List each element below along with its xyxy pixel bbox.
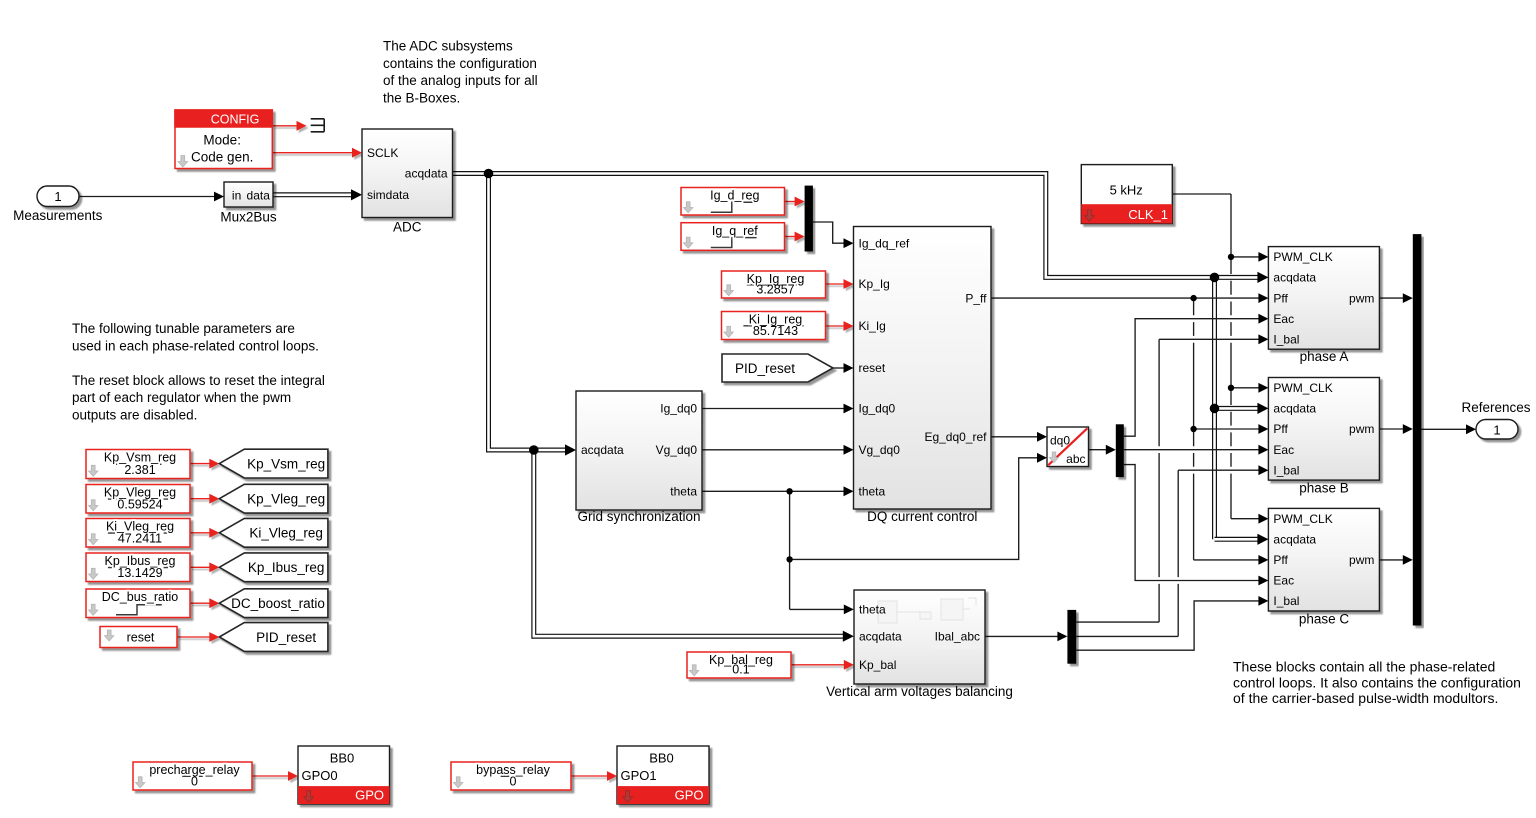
svg-text:1: 1 <box>1493 422 1500 437</box>
svg-text:Pff: Pff <box>1273 291 1288 305</box>
svg-text:pwm: pwm <box>1349 422 1374 436</box>
goto tag Kp_Vleg_reg <box>219 484 328 513</box>
node Pff junction B <box>1190 426 1196 432</box>
wire Ig_d_reg to mux <box>785 201 797 203</box>
svg-text:the B-Boxes.: the B-Boxes. <box>383 90 460 105</box>
svg-text:2.381: 2.381 <box>124 463 155 477</box>
wire Ki_Ig_reg to Ki_Ig <box>826 325 846 327</box>
svg-text:reset: reset <box>859 361 886 375</box>
wire simdata bus: Mux2Bus to ADC <box>273 192 354 197</box>
svg-text:outputs are disabled.: outputs are disabled. <box>72 408 197 423</box>
node acqdata junction phase A <box>1210 273 1220 283</box>
wire I_bal C <box>1076 601 1260 650</box>
block GPO1 <box>617 746 709 804</box>
wire to goto tag Ki_Vleg_reg <box>190 532 211 534</box>
svg-text:Ig_dq_ref: Ig_dq_ref <box>859 236 910 250</box>
wire Vg_dq0 <box>702 449 846 451</box>
svg-text:Kp_bal: Kp_bal <box>859 658 896 672</box>
svg-text:of the analog inputs for all: of the analog inputs for all <box>383 73 538 88</box>
wire Eac C <box>1124 465 1260 581</box>
svg-text:The following tunable paramete: The following tunable parameters are <box>72 321 295 336</box>
parameter block Ki_Ig_reg <box>722 312 826 340</box>
wire pwm A to mux <box>1379 297 1404 299</box>
node PWM_CLK junction B <box>1228 385 1234 391</box>
node acqdata junction phase B <box>1210 404 1220 414</box>
annotation: phase blocks note <box>1233 659 1521 707</box>
block Grid synchronization <box>576 391 702 510</box>
svg-text:Eac: Eac <box>1273 443 1294 457</box>
wire to goto tag PID_reset <box>177 636 211 638</box>
svg-text:Vg_dq0: Vg_dq0 <box>656 443 698 457</box>
node theta junction 1 <box>786 488 792 494</box>
demux abc bar <box>1116 424 1124 477</box>
node acqdata junction 1 <box>484 169 494 179</box>
svg-text:theta: theta <box>859 485 886 499</box>
svg-text:BB0: BB0 <box>649 751 674 766</box>
annotation: ADC subsystems note <box>383 39 538 106</box>
parameter block Kp_bal_reg <box>687 652 791 678</box>
parameter block Ki_Vleg_reg <box>86 519 190 548</box>
svg-text:pwm: pwm <box>1349 291 1374 305</box>
wire acqdata bus: ADC to phase A/B/C <box>453 174 1261 278</box>
svg-text:Ig_d_reg: Ig_d_reg <box>710 189 759 203</box>
wire I_bal B <box>1076 635 1178 637</box>
svg-text:13.1429: 13.1429 <box>117 566 162 580</box>
wire Ig_dq_ref: mux to DQ current control <box>813 222 846 243</box>
svg-text:DC_bus_ratio: DC_bus_ratio <box>102 590 178 604</box>
goto tag PID_reset <box>219 623 328 652</box>
svg-text:0: 0 <box>510 775 517 789</box>
block Mux2Bus <box>224 182 273 207</box>
wire to goto tag Kp_Vsm_reg <box>190 463 211 465</box>
node PWM_CLK junction A <box>1228 254 1234 260</box>
svg-text:Pff: Pff <box>1273 553 1288 567</box>
wire Kp_bal_reg to Kp_bal <box>791 664 846 666</box>
svg-text:0: 0 <box>191 775 198 789</box>
svg-text:The reset block allows to rese: The reset block allows to reset the inte… <box>72 373 325 388</box>
terminator symbol <box>311 119 325 132</box>
red wires group <box>177 121 854 781</box>
svg-text:P_ff: P_ff <box>965 291 987 305</box>
svg-text:Kp_Ibus_reg: Kp_Ibus_reg <box>248 560 325 575</box>
svg-text:theta: theta <box>670 485 697 499</box>
svg-text:Ig_q_ref: Ig_q_ref <box>712 224 758 238</box>
parameter block precharge_relay <box>133 762 252 790</box>
svg-text:acqdata: acqdata <box>581 443 624 457</box>
svg-text:abc: abc <box>1066 452 1085 466</box>
svg-text:PID_reset: PID_reset <box>256 630 316 645</box>
svg-text:Ki_Vleg_reg: Ki_Vleg_reg <box>249 526 323 541</box>
block dq0/abc <box>1047 427 1089 467</box>
svg-text:PWM_CLK: PWM_CLK <box>1273 381 1332 395</box>
svg-text:theta: theta <box>859 603 886 617</box>
block CONFIG <box>175 110 272 169</box>
svg-text:I_bal: I_bal <box>1273 333 1299 347</box>
svg-text:data: data <box>247 188 271 202</box>
block DQ current control <box>854 227 992 510</box>
wire Ig_dq0 <box>702 408 846 410</box>
goto tag DC_boost_ratio <box>219 589 328 618</box>
svg-text:Ki_Ig: Ki_Ig <box>859 319 886 333</box>
svg-text:pwm: pwm <box>1349 553 1374 567</box>
wire Ibal_abc to demux <box>985 635 1060 637</box>
wire dq0/abc out to demux <box>1089 449 1109 451</box>
svg-text:part of each regulator when th: part of each regulator when the pwm <box>72 390 291 405</box>
wire CONFIG to SCLK <box>272 152 354 154</box>
parameter block bypass_relay <box>451 762 571 790</box>
svg-text:I_bal: I_bal <box>1273 463 1299 477</box>
svg-text:47.2411: 47.2411 <box>118 532 162 546</box>
parameter block Kp_Ig_reg <box>722 271 826 298</box>
svg-text:0.59524: 0.59524 <box>117 498 162 512</box>
block CLK_1 5 kHz <box>1081 165 1172 224</box>
svg-text:GPO: GPO <box>355 787 384 802</box>
svg-text:PWM_CLK: PWM_CLK <box>1273 512 1332 526</box>
svg-text:ADC: ADC <box>393 220 422 235</box>
svg-text:acqdata: acqdata <box>1273 533 1316 547</box>
parameter block Ig_d_reg <box>681 188 785 216</box>
svg-text:1: 1 <box>54 189 61 204</box>
svg-text:Eg_dq0_ref: Eg_dq0_ref <box>924 430 987 444</box>
svg-text:Measurements: Measurements <box>13 208 103 223</box>
svg-text:Vg_dq0: Vg_dq0 <box>859 443 901 457</box>
wire to goto tag DC_boost_ratio <box>190 602 211 604</box>
wire I_bal A <box>1076 621 1159 623</box>
mux References bar <box>1413 234 1422 625</box>
block GPO0 <box>298 746 390 804</box>
parameter block DC_bus_ratio <box>86 589 190 618</box>
demux Ibal bar <box>1067 610 1076 664</box>
svg-text:These blocks contain all the p: These blocks contain all the phase-relat… <box>1233 659 1495 675</box>
wire CONFIG to terminator <box>272 125 298 127</box>
svg-text:The ADC subsystems: The ADC subsystems <box>383 39 513 54</box>
parameter block Kp_Vleg_reg <box>86 485 190 514</box>
svg-text:PWM_CLK: PWM_CLK <box>1273 250 1332 264</box>
svg-text:Eac: Eac <box>1273 574 1294 588</box>
wire Ig_q_ref to mux <box>785 236 797 238</box>
wire theta net <box>702 490 846 492</box>
wire Eac B <box>1124 449 1260 451</box>
svg-text:Pff: Pff <box>1273 422 1288 436</box>
block phase C <box>1268 508 1379 611</box>
svg-text:acqdata: acqdata <box>1273 402 1316 416</box>
node Pff junction A <box>1190 295 1196 301</box>
wire acqdata bus: junction down to Grid synchronization <box>489 174 569 451</box>
port arrows <box>214 192 224 202</box>
block phase B <box>1268 378 1379 481</box>
svg-text:acqdata: acqdata <box>405 167 448 181</box>
svg-text:3.2857: 3.2857 <box>756 283 794 297</box>
svg-text:in: in <box>232 188 241 202</box>
svg-text:Kp_Vleg_reg: Kp_Vleg_reg <box>247 492 325 507</box>
svg-text:0.1: 0.1 <box>732 663 749 677</box>
svg-text:GPO0: GPO0 <box>302 768 338 783</box>
wire bypass_relay to GPO1 <box>571 775 609 777</box>
svg-text:CONFIG: CONFIG <box>211 112 260 126</box>
wire pwm C to mux <box>1379 559 1404 561</box>
outport 1 References <box>1476 420 1518 440</box>
block ADC <box>362 129 453 218</box>
svg-text:Kp_Ig: Kp_Ig <box>859 277 890 291</box>
goto tag Kp_Vsm_reg <box>219 449 328 478</box>
svg-text:dq0: dq0 <box>1050 433 1070 447</box>
svg-text:phase A: phase A <box>1300 349 1349 364</box>
svg-text:Vertical arm voltages balancin: Vertical arm voltages balancing <box>826 684 1013 699</box>
mux Ig_dq_ref bar <box>805 186 813 252</box>
wire pwm B to mux <box>1379 428 1404 430</box>
svg-text:contains the configuration: contains the configuration <box>383 56 537 71</box>
wire Kp_Ig_reg to Kp_Ig <box>826 283 846 285</box>
svg-text:simdata: simdata <box>367 188 409 202</box>
goto tag Kp_Ibus_reg <box>219 553 328 582</box>
svg-text:SCLK: SCLK <box>367 146 398 160</box>
parameter block Kp_Ibus_reg <box>86 553 190 582</box>
svg-text:Ig_dq0: Ig_dq0 <box>859 402 896 416</box>
svg-text:Grid synchronization: Grid synchronization <box>577 509 700 524</box>
goto tag Ki_Vleg_reg <box>219 518 328 547</box>
wire PID_reset tag to reset port <box>833 367 846 369</box>
svg-text:5 kHz: 5 kHz <box>1110 183 1143 198</box>
svg-text:PID_reset: PID_reset <box>735 361 795 376</box>
svg-text:BB0: BB0 <box>330 751 355 766</box>
svg-text:DC_boost_ratio: DC_boost_ratio <box>231 596 325 611</box>
svg-text:phase B: phase B <box>1299 480 1349 495</box>
svg-text:used in each phase-related con: used in each phase-related control loops… <box>72 338 319 353</box>
svg-text:GPO1: GPO1 <box>621 768 657 783</box>
svg-text:of the carrier-based pulse-wid: of the carrier-based pulse-width modulto… <box>1233 690 1498 706</box>
svg-text:DQ current control: DQ current control <box>867 509 977 524</box>
svg-text:References: References <box>1461 400 1530 415</box>
wire precharge_relay to GPO0 <box>252 775 290 777</box>
annotation: tunable parameters note <box>72 321 325 423</box>
svg-text:reset: reset <box>127 631 155 645</box>
wire to goto tag Kp_Ibus_reg <box>190 566 211 568</box>
wire Measurements to Mux2Bus <box>79 196 216 198</box>
svg-text:Mux2Bus: Mux2Bus <box>220 210 277 225</box>
wire Eac A <box>1124 319 1260 437</box>
svg-text:phase C: phase C <box>1299 611 1350 626</box>
block phase A <box>1268 247 1379 350</box>
svg-text:I_bal: I_bal <box>1273 594 1299 608</box>
parameter block Kp_Vsm_reg <box>86 450 190 479</box>
svg-text:Kp_Vsm_reg: Kp_Vsm_reg <box>247 456 325 471</box>
block Vertical arm voltages balancing <box>854 590 985 684</box>
wire P_ff to Pff feeds <box>991 297 1260 299</box>
from tag PID_reset <box>722 354 833 382</box>
node theta junction 2 <box>786 556 792 562</box>
parameter block Ig_q_ref <box>681 223 785 251</box>
svg-text:Mode:: Mode: <box>203 133 241 148</box>
svg-text:control loops. It also contain: control loops. It also contains the conf… <box>1233 674 1521 690</box>
svg-text:GPO: GPO <box>675 787 704 802</box>
svg-text:acqdata: acqdata <box>1273 271 1316 285</box>
svg-text:Eac: Eac <box>1273 312 1294 326</box>
svg-text:CLK_1: CLK_1 <box>1128 207 1168 222</box>
svg-text:Ibal_abc: Ibal_abc <box>935 630 980 644</box>
svg-text:Code gen.: Code gen. <box>191 150 253 165</box>
svg-text:acqdata: acqdata <box>859 629 902 643</box>
svg-text:Ig_dq0: Ig_dq0 <box>660 402 697 416</box>
wire CLK 5kHz to PWM_CLK feeds <box>1172 193 1231 195</box>
parameter block reset <box>100 627 177 648</box>
node acqdata junction 2 <box>529 445 539 455</box>
wire Eg_dq0_ref to dq0/abc <box>991 436 1040 438</box>
wire to goto tag Kp_Vleg_reg <box>190 498 211 500</box>
wire mux to References <box>1421 428 1468 430</box>
svg-text:85.7143: 85.7143 <box>753 324 798 338</box>
wire acqdata bus: junction down to Vertical arm voltages balancing <box>534 450 846 636</box>
inport 1 Measurements <box>37 186 79 207</box>
